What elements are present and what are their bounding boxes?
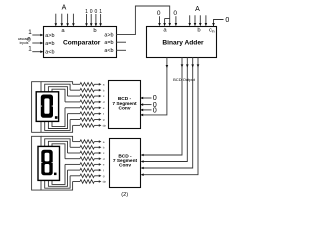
svg-text:b: b: [103, 88, 105, 92]
svg-text:0: 0: [225, 17, 229, 24]
svg-text:(2): (2): [121, 192, 128, 198]
svg-text:dp: dp: [103, 180, 107, 184]
svg-text:1: 1: [99, 9, 102, 15]
svg-text:e: e: [103, 163, 105, 167]
svg-text:Conv: Conv: [119, 163, 131, 169]
svg-text:0: 0: [157, 10, 161, 17]
svg-text:1: 1: [85, 9, 88, 15]
svg-text:b: b: [197, 28, 200, 34]
svg-text:a<b: a<b: [104, 48, 113, 54]
svg-text:c: c: [103, 94, 105, 98]
svg-text:d: d: [103, 100, 105, 104]
svg-text:e: e: [103, 106, 105, 110]
svg-text:0: 0: [95, 9, 98, 15]
svg-text:a>b: a>b: [104, 33, 113, 39]
svg-text:BCD Output: BCD Output: [173, 77, 196, 82]
svg-text:g: g: [103, 174, 105, 178]
svg-text:inputs: inputs: [20, 41, 29, 45]
svg-text:0: 0: [173, 10, 177, 17]
svg-text:f: f: [103, 168, 104, 172]
svg-text:g: g: [103, 118, 105, 122]
svg-text:a<b: a<b: [45, 50, 54, 56]
svg-text:a=b: a=b: [45, 41, 54, 47]
svg-text:0: 0: [153, 106, 157, 115]
svg-text:Binary Adder: Binary Adder: [162, 40, 204, 47]
svg-text:dp: dp: [103, 124, 107, 128]
svg-text:b: b: [103, 146, 105, 150]
svg-text:d: d: [103, 157, 105, 161]
svg-text:a=b: a=b: [104, 40, 113, 46]
svg-text:a: a: [103, 83, 105, 87]
svg-text:Comparator: Comparator: [63, 39, 101, 46]
svg-text:b: b: [93, 28, 96, 34]
svg-text:1: 1: [28, 45, 32, 52]
svg-text:0: 0: [90, 9, 93, 15]
svg-text:a: a: [103, 140, 105, 144]
svg-text:Conv: Conv: [119, 106, 131, 112]
svg-text:A: A: [195, 6, 200, 13]
svg-text:1: 1: [28, 29, 32, 36]
svg-text:a>b: a>b: [45, 33, 54, 39]
svg-text:A: A: [62, 5, 67, 12]
svg-text:f: f: [103, 112, 104, 116]
svg-text:c: c: [103, 151, 105, 155]
